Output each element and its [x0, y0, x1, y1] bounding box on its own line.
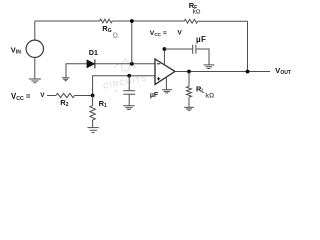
resistor R2 — [56, 93, 74, 97]
wire: bypass cap bottom lead — [128, 94, 130, 105]
watermark CIRCUITS DIY — [102, 73, 149, 95]
svg-text:RG: RG — [102, 24, 111, 34]
ground below bypass cap — [123, 106, 134, 110]
svg-text:V: V — [40, 92, 45, 99]
svg-text:kΩ: kΩ — [193, 9, 201, 15]
op-amp minus sign — [157, 63, 160, 65]
wire: RF to feedback corner — [198, 20, 248, 22]
wire: supply node to decoupling cap — [164, 48, 192, 50]
svg-text:V: V — [178, 30, 183, 37]
wire: node A to RF — [132, 20, 184, 22]
svg-text:µF: µF — [196, 35, 206, 44]
wire: R2 to junction — [75, 95, 93, 97]
wire: RL to ground — [188, 97, 190, 107]
diode D1 — [87, 59, 95, 68]
node: supply decoupling — [163, 47, 167, 51]
wire: RG to node A — [112, 20, 132, 22]
watermark ornament — [114, 58, 136, 72]
svg-text:µF: µF — [150, 92, 159, 99]
resistor RF — [184, 19, 197, 23]
wire: node A down to inverting input — [131, 21, 133, 64]
node A junction dot — [130, 19, 134, 23]
wire: bypass cap top lead — [128, 76, 130, 91]
svg-text:VCC =: VCC = — [11, 92, 31, 102]
svg-text:VOUT: VOUT — [275, 66, 291, 76]
node: R2/R1 junction — [91, 94, 95, 98]
svg-text:Ω: Ω — [113, 33, 118, 40]
wire: VCC to R2 — [47, 95, 56, 97]
source VIN circle — [26, 40, 43, 57]
wire: output — [175, 71, 270, 73]
svg-text:R1: R1 — [99, 99, 107, 109]
node: non-inverting bypass tap — [127, 74, 131, 78]
wire: D1 cathode to inverting input — [95, 63, 155, 65]
wire: non-inverting input from divider — [93, 76, 155, 96]
svg-text:kΩ: kΩ — [205, 93, 214, 100]
ground below R1 — [87, 128, 98, 133]
ground below D1 anode — [62, 78, 70, 81]
op-amp U1 — [155, 59, 175, 85]
node: RL tap — [187, 70, 191, 74]
wire: VIN top lead — [34, 21, 36, 40]
node: inverting input junction — [130, 62, 134, 66]
wire: op-amp V- pin to ground — [165, 78, 167, 90]
svg-text:D1: D1 — [89, 50, 98, 57]
resistor RG — [100, 19, 113, 23]
svg-text:R2: R2 — [60, 98, 68, 108]
wire: VCC pin to supply node — [163, 49, 165, 65]
wire: VIN bottom lead — [34, 58, 36, 79]
resistor R1 — [90, 106, 95, 120]
resistor RL — [187, 86, 192, 97]
svg-text:RL: RL — [196, 84, 204, 94]
wire: junction to R1 — [92, 96, 94, 106]
capacitor decoupling — [193, 45, 196, 54]
ground below VIN — [29, 79, 41, 83]
capacitor bypass (non-inverting input) — [123, 91, 135, 95]
wire: top rail VIN to RG — [35, 20, 100, 22]
ground below RL — [184, 107, 194, 110]
op-amp plus sign — [157, 77, 160, 80]
wire: D1 anode lead from ground stub — [66, 64, 87, 78]
wire: decoupling cap to ground — [196, 49, 209, 65]
wire: feedback vertical to output — [247, 21, 249, 71]
wire: RL top lead — [188, 72, 190, 87]
node: feedback tap — [246, 70, 250, 74]
ground decoupling — [204, 65, 215, 69]
svg-text:VIN: VIN — [11, 46, 21, 56]
ground below op-amp — [162, 90, 172, 93]
wire: R1 to ground — [92, 120, 94, 127]
svg-text:VCC =: VCC = — [150, 30, 167, 37]
